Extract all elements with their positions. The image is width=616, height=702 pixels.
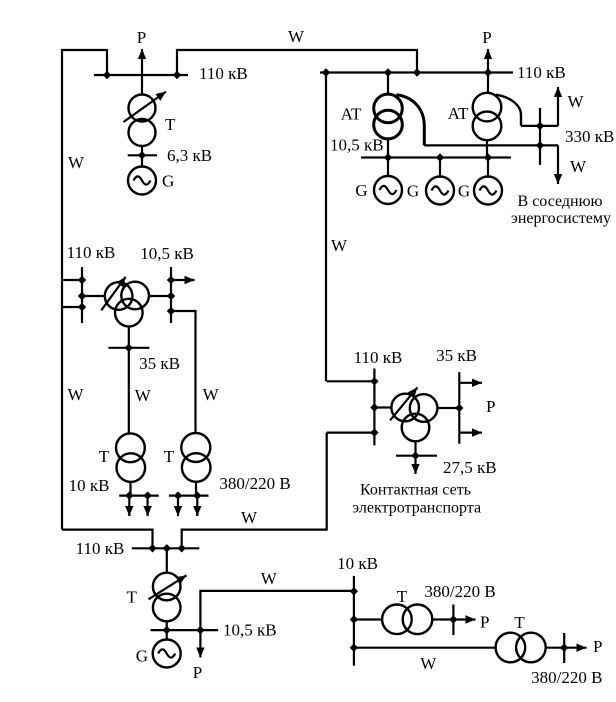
- svg-text:W: W: [261, 569, 278, 588]
- svg-text:P: P: [137, 28, 146, 47]
- svg-text:W: W: [567, 92, 584, 111]
- svg-text:W: W: [241, 508, 258, 527]
- svg-text:P: P: [486, 397, 495, 416]
- svg-text:T: T: [165, 115, 176, 134]
- svg-text:330 кВ: 330 кВ: [565, 127, 614, 146]
- svg-text:P: P: [193, 663, 202, 682]
- svg-text:электротранспорта: электротранспорта: [352, 500, 481, 517]
- svg-text:110 кВ: 110 кВ: [76, 539, 125, 558]
- svg-text:G: G: [136, 647, 148, 666]
- svg-text:380/220 В: 380/220 В: [424, 582, 495, 601]
- svg-text:В соседнюю: В соседнюю: [518, 193, 603, 210]
- svg-text:6,3 кВ: 6,3 кВ: [167, 146, 212, 165]
- svg-text:10 кВ: 10 кВ: [337, 554, 378, 573]
- svg-text:W: W: [68, 153, 85, 172]
- svg-text:P: P: [482, 28, 491, 47]
- svg-text:10,5 кВ: 10,5 кВ: [223, 621, 277, 640]
- svg-text:27,5 кВ: 27,5 кВ: [443, 458, 497, 477]
- svg-text:10 кВ: 10 кВ: [69, 476, 110, 495]
- svg-text:W: W: [331, 236, 348, 255]
- svg-text:110 кВ: 110 кВ: [199, 64, 248, 83]
- svg-text:10,5 кВ: 10,5 кВ: [330, 136, 384, 155]
- svg-text:110 кВ: 110 кВ: [517, 63, 566, 82]
- svg-text:W: W: [135, 386, 152, 405]
- svg-text:AT: AT: [448, 104, 469, 123]
- svg-text:T: T: [164, 447, 175, 466]
- svg-text:35 кВ: 35 кВ: [436, 346, 477, 365]
- svg-text:110 кВ: 110 кВ: [354, 348, 403, 367]
- svg-text:G: G: [162, 172, 174, 191]
- svg-text:35 кВ: 35 кВ: [139, 354, 180, 373]
- svg-text:T: T: [397, 587, 408, 606]
- svg-text:W: W: [67, 385, 84, 404]
- svg-text:W: W: [420, 654, 437, 673]
- svg-text:T: T: [127, 588, 138, 607]
- svg-text:10,5 кВ: 10,5 кВ: [140, 244, 194, 263]
- svg-text:энергосистему: энергосистему: [511, 210, 611, 227]
- svg-text:Контактная сеть: Контактная сеть: [360, 482, 471, 499]
- svg-text:380/220 В: 380/220 В: [219, 474, 290, 493]
- svg-text:380/220 В: 380/220 В: [531, 668, 602, 687]
- svg-text:W: W: [288, 27, 305, 46]
- svg-text:T: T: [99, 447, 110, 466]
- svg-text:T: T: [514, 613, 525, 632]
- svg-text:P: P: [480, 613, 489, 632]
- svg-text:P: P: [593, 637, 602, 656]
- svg-text:G: G: [355, 181, 367, 200]
- svg-text:W: W: [203, 385, 220, 404]
- svg-text:W: W: [570, 157, 587, 176]
- svg-text:G: G: [458, 182, 470, 201]
- svg-text:AT: AT: [341, 105, 362, 124]
- svg-text:G: G: [407, 182, 419, 201]
- svg-text:110 кВ: 110 кВ: [67, 243, 116, 262]
